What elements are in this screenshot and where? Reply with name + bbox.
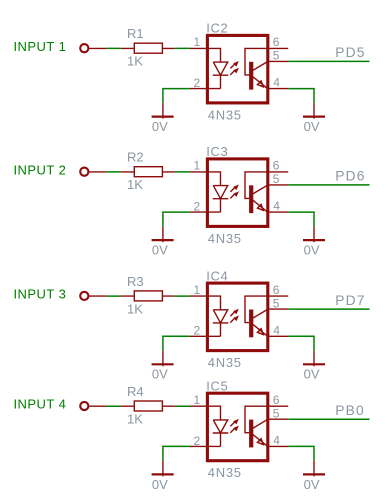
svg-text:PD5: PD5 — [335, 45, 365, 60]
svg-text:PD6: PD6 — [335, 169, 365, 184]
svg-text:1: 1 — [194, 393, 201, 407]
svg-text:INPUT 2: INPUT 2 — [14, 162, 67, 177]
svg-text:4: 4 — [273, 76, 280, 90]
svg-text:4N35: 4N35 — [208, 465, 242, 480]
svg-text:6: 6 — [273, 393, 280, 407]
svg-text:INPUT 4: INPUT 4 — [14, 397, 67, 412]
svg-text:1: 1 — [194, 283, 201, 297]
svg-text:6: 6 — [273, 283, 280, 297]
svg-text:IC4: IC4 — [206, 268, 228, 283]
svg-text:4N35: 4N35 — [208, 355, 242, 370]
svg-text:1: 1 — [194, 35, 201, 49]
svg-text:6: 6 — [273, 159, 280, 173]
svg-text:R4: R4 — [127, 384, 144, 399]
svg-text:R3: R3 — [127, 274, 144, 289]
svg-text:IC2: IC2 — [206, 21, 228, 36]
svg-text:0V: 0V — [152, 367, 168, 382]
svg-text:5: 5 — [273, 296, 280, 310]
svg-text:1K: 1K — [127, 301, 143, 316]
svg-text:2: 2 — [194, 434, 201, 448]
svg-text:2: 2 — [194, 324, 201, 338]
svg-text:4N35: 4N35 — [208, 107, 242, 122]
svg-text:0V: 0V — [152, 243, 168, 258]
svg-text:1K: 1K — [127, 177, 143, 192]
svg-text:PD7: PD7 — [335, 293, 365, 308]
svg-text:6: 6 — [273, 35, 280, 49]
svg-text:0V: 0V — [304, 119, 320, 134]
svg-text:2: 2 — [194, 200, 201, 214]
svg-text:5: 5 — [273, 49, 280, 63]
svg-text:1K: 1K — [127, 54, 143, 69]
svg-text:4N35: 4N35 — [208, 231, 242, 246]
svg-text:5: 5 — [273, 172, 280, 186]
svg-text:0V: 0V — [152, 119, 168, 134]
svg-text:0V: 0V — [304, 477, 320, 492]
svg-text:1: 1 — [194, 159, 201, 173]
svg-text:2: 2 — [194, 76, 201, 90]
svg-text:IC5: IC5 — [206, 378, 228, 393]
svg-text:4: 4 — [273, 433, 280, 447]
svg-text:4: 4 — [273, 199, 280, 213]
svg-text:0V: 0V — [304, 367, 320, 382]
svg-text:PB0: PB0 — [335, 403, 365, 418]
svg-text:0V: 0V — [304, 243, 320, 258]
svg-text:5: 5 — [273, 407, 280, 421]
svg-text:INPUT 1: INPUT 1 — [14, 39, 67, 54]
svg-text:0V: 0V — [152, 477, 168, 492]
svg-text:R1: R1 — [127, 26, 144, 41]
svg-text:INPUT 3: INPUT 3 — [14, 287, 67, 302]
svg-text:1K: 1K — [127, 411, 143, 426]
svg-text:R2: R2 — [127, 150, 144, 165]
svg-text:IC3: IC3 — [206, 144, 228, 159]
svg-text:4: 4 — [273, 323, 280, 337]
